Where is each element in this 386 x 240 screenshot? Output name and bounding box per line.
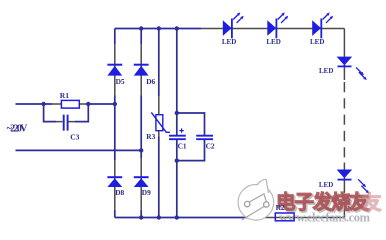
wire: C3 branch right bbox=[75, 104, 88, 122]
wire: bridge right vertical navy segments bbox=[140, 29, 142, 218]
svg-text:R1: R1 bbox=[60, 91, 69, 100]
wire: top rail gray LED chain bbox=[201, 28, 344, 30]
wire: C3 branch left bbox=[44, 104, 56, 122]
svg-text:LED: LED bbox=[310, 38, 324, 46]
wire: right vertical solid upper bbox=[343, 29, 345, 81]
wire: right vertical solid lower bbox=[343, 163, 345, 218]
wire: C1 bottom lead bbox=[176, 140, 178, 218]
capacitor C1 bbox=[169, 128, 186, 139]
wire: R3 vertical navy segments bbox=[158, 29, 160, 218]
resistor R1 bbox=[61, 100, 79, 108]
watermark logo circle bbox=[238, 179, 274, 220]
wire: bottom rail navy segment bbox=[115, 217, 250, 219]
diode D9 bbox=[134, 177, 149, 187]
wire: C1 top lead from rail bbox=[176, 29, 178, 136]
LED LED5 vertical bbox=[337, 170, 370, 194]
wire: bridge left vertical navy segments bbox=[114, 29, 116, 218]
LED LED3 bbox=[312, 12, 333, 38]
svg-text:C2: C2 bbox=[206, 142, 215, 151]
wire: top rail navy segment bbox=[115, 28, 201, 30]
svg-text:D9: D9 bbox=[142, 188, 151, 197]
wire: diode D6 gray lead bbox=[140, 44, 142, 96]
wire: AC input bottom wire bbox=[16, 149, 142, 151]
node: junction dot C1 top bbox=[175, 111, 179, 115]
LED LED2 bbox=[267, 12, 288, 38]
svg-text:LED: LED bbox=[266, 38, 280, 46]
svg-text:D5: D5 bbox=[116, 77, 125, 86]
LED LED1 bbox=[223, 12, 244, 38]
node: top rail dot at C1 line bbox=[175, 26, 179, 30]
svg-text:C3: C3 bbox=[70, 133, 79, 142]
svg-text:LED: LED bbox=[319, 67, 333, 75]
wire: diode D5 gray lead bbox=[114, 44, 116, 96]
svg-text:D8: D8 bbox=[115, 188, 124, 197]
wire: C2 top branch bbox=[177, 113, 205, 135]
svg-text:R2: R2 bbox=[276, 203, 285, 212]
node: junction dot C1 bottom bbox=[175, 158, 179, 162]
capacitor C2 bbox=[196, 136, 213, 140]
wire: C3 gray leads bbox=[56, 121, 75, 123]
wire: R3 gray lead bbox=[158, 96, 160, 136]
node: bottom rail dot at D9 line bbox=[139, 215, 143, 219]
resistor R2 bbox=[275, 213, 294, 221]
varistor R3 bbox=[151, 112, 170, 132]
node: top rail dot at D6 line bbox=[139, 26, 143, 30]
wire: diode D8 gray lead bbox=[114, 160, 116, 210]
svg-text:D6: D6 bbox=[146, 77, 155, 86]
diode D5 bbox=[107, 65, 122, 76]
node: junction dot AC top to bridge bbox=[113, 102, 117, 106]
node: junction dot left of R1 bbox=[41, 102, 45, 106]
svg-text:~220V: ~220V bbox=[7, 124, 29, 135]
node: top rail dot at R3 line bbox=[157, 26, 161, 30]
wire: right vertical dashed segment bbox=[343, 82, 345, 158]
svg-text:LED: LED bbox=[319, 181, 333, 189]
wire: C2 bottom branch bbox=[177, 140, 205, 161]
node: junction dot AC bottom to bridge bbox=[139, 148, 143, 152]
capacitor C3 bbox=[64, 115, 68, 131]
svg-text:C1: C1 bbox=[178, 142, 187, 151]
node: bottom rail dot at R3 line bbox=[157, 215, 161, 219]
LED LED4 vertical bbox=[337, 57, 367, 81]
diode D6 bbox=[134, 65, 149, 76]
diode D8 bbox=[107, 177, 122, 187]
node: bottom rail dot at C1 line bbox=[175, 215, 179, 219]
svg-text:LED: LED bbox=[222, 38, 236, 46]
wire: diode D9 gray lead bbox=[140, 158, 142, 210]
wire: R1 gray lead segments bbox=[52, 103, 86, 105]
wire: AC input top wire bbox=[16, 103, 115, 105]
svg-text:R3: R3 bbox=[146, 132, 155, 141]
wire: bottom rail gray segment bbox=[250, 217, 344, 219]
node: junction dot right of R1 bbox=[86, 102, 90, 106]
